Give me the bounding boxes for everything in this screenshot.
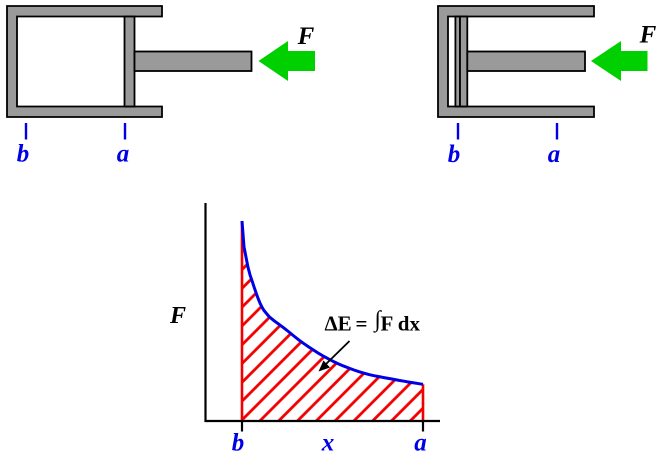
piston thin plate (right figure, at position b) [455, 17, 460, 107]
axis tick at b [241, 421, 243, 432]
piston (right figure, at position b) [460, 17, 467, 107]
tick mark b (right figure) [457, 123, 459, 140]
svg-text:a: a [548, 141, 561, 168]
force arrow F (right figure, green, pointing left) [591, 41, 648, 81]
cylinder body (left, expanded state) [7, 6, 162, 117]
piston (left figure, at position a) [125, 17, 135, 107]
svg-text:=: = [356, 312, 368, 336]
piston rod (right figure) [467, 52, 585, 72]
svg-text:F: F [639, 22, 657, 49]
force arrow F (left figure, green, pointing left) [259, 41, 316, 81]
svg-text:x: x [321, 430, 335, 456]
cylinder body (right, compressed state) [438, 6, 594, 117]
svg-text:F: F [169, 303, 186, 329]
F(x) curve (blue) [242, 221, 423, 384]
annotation arrow to curve [325, 341, 350, 365]
axis tick at a [422, 421, 424, 432]
svg-text:ΔE: ΔE [325, 312, 352, 336]
tick mark b (left figure) [25, 123, 27, 140]
red boundary line at a [422, 384, 425, 421]
svg-text:b: b [448, 141, 461, 168]
svg-text:a: a [117, 141, 130, 168]
piston rod (left figure) [135, 52, 252, 72]
svg-text:F dx: F dx [381, 312, 421, 336]
svg-text:b: b [232, 430, 245, 456]
svg-text:b: b [17, 141, 30, 168]
y-axis [204, 203, 206, 422]
svg-text:a: a [414, 430, 427, 456]
annotation arrowhead [319, 361, 331, 372]
shaded work area under curve (red hatch) [242, 221, 423, 421]
tick mark a (left figure) [124, 123, 126, 140]
red boundary line at b [241, 221, 244, 421]
x-axis [205, 420, 441, 422]
svg-text:F: F [297, 23, 315, 50]
tick mark a (right figure) [556, 123, 558, 140]
